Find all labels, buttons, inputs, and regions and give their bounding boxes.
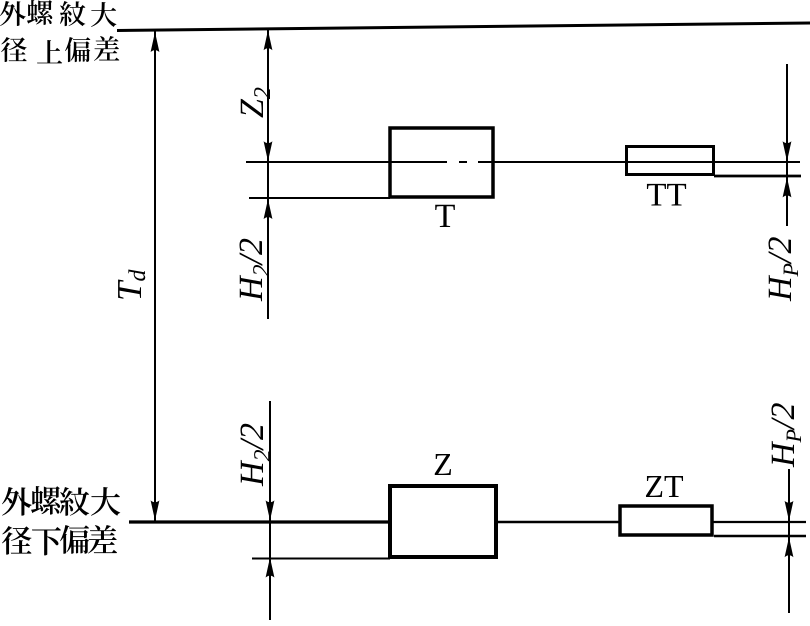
char 差 bottom line2 [88,525,117,554]
dimension line Z2 / H2-2 vertical (upper) [267,29,269,319]
label Z [435,454,451,475]
arrowhead Td bottom (down) [151,500,160,520]
box TT (tolerance zone) [627,147,714,175]
arrowhead Hp/2 lower (down at bottom line) [785,501,794,521]
char 差 top line2 [94,36,119,61]
dimension line H2-2 vertical (lower) [269,401,271,620]
wire: pitch center line left part [246,161,447,163]
wire: Z box bottom extension line [252,558,390,560]
char 偏 top line2 [65,37,90,62]
box Z (tolerance zone) [390,486,496,557]
char 紋 bottom line1 [60,487,89,516]
char 径 top line2 [1,37,27,62]
wire: upper deviation line (top heavy line) [117,23,810,31]
char 螺 top line1 [27,0,52,25]
dimension line Td vertical [154,31,156,521]
label Hp/2 upper (rotated) [768,237,798,301]
arrowhead Hp/2 upper (up at TT-bottom line) [783,177,792,197]
wire: TT box bottom extension line [714,175,801,178]
label Z2 (rotated) [241,88,270,118]
char 上 top line2 [37,40,62,63]
arrowhead Td top (up) [151,32,160,52]
arrowhead Hp/2 upper (down at pitch line) [783,141,792,161]
wire: pitch center line right part [478,161,800,163]
label: bottom-left text 外螺纹大 (line 1) [2,486,120,516]
label ZT [646,476,683,497]
char 径 bottom line2 [2,526,32,555]
char 下 bottom line2 [32,527,61,555]
wire: lower deviation line left segment [129,520,390,523]
char 螺 bottom line1 [31,486,60,515]
char 大 top line1 [91,2,116,27]
label H2/2 lower (rotated) [240,424,270,487]
char 偏 bottom line2 [60,525,89,554]
label Hp/2 lower (rotated) [771,403,801,467]
label H2/2 upper (rotated) [239,239,269,302]
arrowhead Hp/2 lower (up at ZT-bottom line) [785,537,794,557]
arrowhead Z2 bottom (down) [264,141,273,161]
wire: pitch center line short dash inside T [459,161,467,163]
arrowhead H2/2 lower (up at Z-bottom line) [266,558,275,578]
label: top-left text 外螺纹大 (line 1) [0,0,116,27]
arrowhead Z2 top (up) [264,30,273,50]
wire: lower deviation line right segment (right of ZT) [712,521,806,523]
box ZT (tolerance zone) [620,506,712,535]
label: bottom-left text 径下偏差 (line 2) [2,525,117,555]
dimension line Hp-2 vertical (lower right) [788,469,790,613]
wire: ZT box bottom extension line [714,535,806,537]
char 外 top line1 [0,1,26,26]
arrowhead H2/2 upper (up at T-bottom line) [264,199,273,219]
label Td (rotated) [118,269,145,298]
label: top-left text 径上偏差 (line 2) [1,36,119,63]
wire: lower deviation line middle segment (between Z and ZT) [496,521,620,523]
arrowhead H2/2 lower (down at bottom line) [266,500,275,520]
char 大 bottom line1 [91,487,120,516]
box T (tolerance zone) [390,128,493,197]
label TT [647,184,686,206]
char 外 bottom line1 [2,487,32,516]
wire: T box bottom extension line [249,197,390,199]
label T [435,205,455,227]
dimension line Hp-2 vertical (upper right) [786,64,788,226]
char 紋 top line1 [60,1,85,26]
